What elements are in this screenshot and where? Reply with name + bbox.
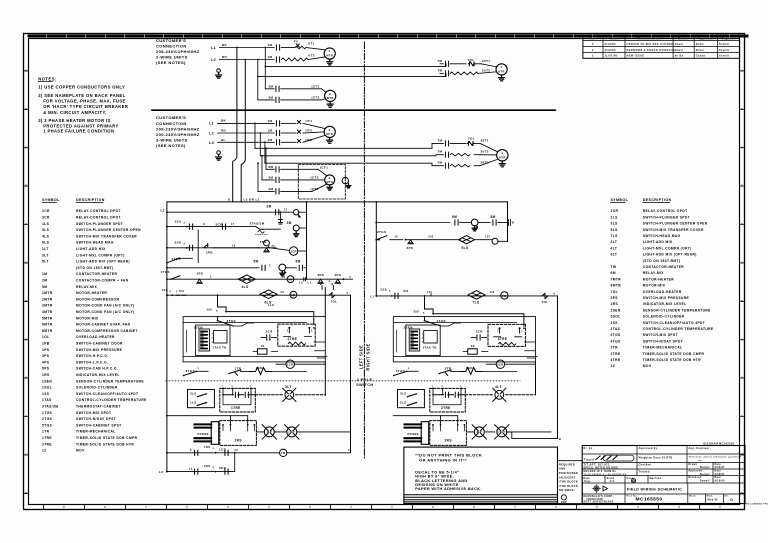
svg-text:TIMER-SOLID STATE DOB HTR: TIMER-SOLID STATE DOB HTR (643, 358, 701, 362)
svg-text:9: 9 (63, 506, 65, 509)
motor 1MTR circle (324, 48, 335, 59)
svg-text:PROBE: PROBE (408, 432, 419, 436)
svg-text:2 POLE: 2 POLE (357, 378, 373, 382)
wire L1 three phase (218, 122, 275, 124)
svg-text:1TAS: 1TAS (42, 398, 52, 402)
relay coil 2M aux circle (294, 210, 299, 215)
svg-text:1LT: 1LT (267, 431, 272, 434)
joining vertical (234, 453, 236, 472)
svg-text:RIGHT SIDE: RIGHT SIDE (365, 343, 370, 370)
right ladder upper right vertical (507, 202, 509, 242)
timer 4TRE box (488, 324, 525, 346)
drop wire into right box (425, 296, 524, 326)
svg-text:6: 6 (555, 506, 557, 509)
svg-text:a: a (216, 309, 218, 312)
svg-text:16: 16 (395, 236, 399, 239)
left ladder left bus (166, 202, 168, 472)
svg-text:PROBE: PROBE (198, 432, 209, 436)
svg-text:3TRE: 3TRE (288, 337, 298, 341)
svg-text:(CT1: (CT1 (312, 84, 320, 88)
revision table (583, 36, 740, 58)
ground below compressor (1ph) (327, 102, 333, 108)
svg-text:Drawn: Drawn (689, 464, 698, 466)
svg-text:6LT: 6LT (611, 253, 618, 257)
svg-text:4: 4 (268, 506, 270, 509)
center divider dash-dot line (363, 42, 365, 458)
svg-text:2M: 2M (269, 187, 274, 191)
svg-text:capacitor: capacitor (255, 233, 268, 236)
svg-text:4LS: 4LS (242, 285, 249, 289)
svg-text:MOV: MOV (643, 364, 652, 368)
svg-text:17: 17 (231, 223, 235, 226)
svg-text:L2: L2 (159, 470, 163, 474)
svg-text:SWITCH-CABINET DOOR: SWITCH-CABINET DOOR (76, 342, 123, 346)
svg-text:UPDATE TO MIX REF SYSTEM: UPDATE TO MIX REF SYSTEM (627, 42, 674, 46)
svg-text:HTR: HTR (499, 155, 505, 159)
heater element zigzag pole 2 (450, 72, 478, 75)
svg-text:TIMER-SOLID STATE DOB HTR: TIMER-SOLID STATE DOB HTR (76, 442, 134, 446)
svg-text:DIAGRAM MC165550: DIAGRAM MC165550 (704, 442, 735, 445)
svg-text:Engineer: Engineer (722, 37, 735, 40)
svg-text:MOTOR-MIX: MOTOR-MIX (643, 284, 666, 288)
ground below HTR (3ph) (499, 161, 505, 167)
svg-text:4: 4 (329, 280, 331, 283)
svg-text:3LS: 3LS (611, 222, 619, 226)
svg-text:7M: 7M (438, 150, 443, 154)
svg-text:x: x (408, 367, 410, 370)
svg-text:7: 7 (145, 506, 147, 509)
svg-text:2TAS TB: 2TAS TB (423, 346, 437, 350)
svg-text:H: H (741, 376, 743, 380)
svg-text:22: 22 (235, 449, 239, 452)
svg-text:MOLDED IN 3 TERM.BL: MOLDED IN 3 TERM.BL (584, 471, 617, 473)
svg-text:3: 3 (309, 506, 311, 509)
svg-text:TIMER-MECHANICAL: TIMER-MECHANICAL (643, 346, 683, 350)
svg-text:RD: RD (222, 55, 228, 59)
svg-text:SWITCH-PLUNGER SPDT: SWITCH-PLUNGER SPDT (76, 222, 123, 226)
feeder vertical from L1 (264, 47, 266, 49)
branch mix rail 1TGS (167, 278, 353, 280)
svg-text:1CR: 1CR (287, 363, 294, 367)
svg-text:7M: 7M (438, 68, 443, 72)
left ladder inner feed vertical (306, 202, 308, 279)
svg-text:3PS: 3PS (42, 354, 50, 358)
svg-text:OR 'HACR' TYPE CIRCUIT BREAKER: OR 'HACR' TYPE CIRCUIT BREAKER (43, 104, 128, 109)
svg-text:3SOL: 3SOL (611, 315, 621, 319)
svg-text:CUSTOMER'S: CUSTOMER'S (156, 38, 186, 43)
svg-text:RELAY-CONTROL DPDT: RELAY-CONTROL DPDT (76, 209, 121, 213)
svg-text:SENSOR-CYLINDER TEMPERATURE: SENSOR-CYLINDER TEMPERATURE (76, 379, 144, 383)
lamp 1LT (264, 427, 274, 437)
svg-text:1CR: 1CR (42, 209, 50, 213)
rail L2-or-L1 horizontal (167, 201, 508, 203)
svg-text:2: 2 (329, 176, 331, 180)
svg-text:1SOL: 1SOL (42, 386, 52, 390)
svg-text:1PB: 1PB (42, 342, 50, 346)
svg-text:MIX: MIX (404, 291, 409, 293)
svg-text:MOV: MOV (76, 449, 85, 453)
svg-text:BK: BK (222, 43, 228, 47)
svg-text:7A: 7A (189, 468, 193, 471)
svg-text:POSITIONED: POSITIONED (559, 472, 578, 475)
svg-text:208-230V/3PH/60HZ: 208-230V/3PH/60HZ (156, 126, 200, 131)
svg-text:2LT: 2LT (477, 431, 482, 434)
feeder to 2M contacts (257, 132, 259, 134)
relay 6M circle (287, 276, 294, 283)
svg-text:1=1: 1=1 (610, 480, 616, 483)
svg-text:MTR: MTR (326, 54, 333, 58)
svg-text:Cxdxx: Cxdxx (696, 54, 706, 58)
svg-text:SWITCH-CLEAN/OFF/AUTO 4PDT: SWITCH-CLEAN/OFF/AUTO 4PDT (643, 321, 705, 325)
svg-text:18: 18 (232, 244, 236, 247)
right ladder main rail (376, 295, 557, 297)
vertical feeder wire A (233, 48, 237, 202)
svg-text:D: D (730, 498, 733, 502)
svg-text:SWITCH-MIX SPST: SWITCH-MIX SPST (643, 333, 678, 337)
svg-text:1M: 1M (268, 43, 273, 47)
svg-text:PAPER WITH ADHESIVE BACK.: PAPER WITH ADHESIVE BACK. (415, 487, 481, 491)
svg-text:9: 9 (432, 506, 434, 509)
svg-text:7: 7 (514, 506, 516, 509)
svg-text:SWITCH-MIX PRESSURE: SWITCH-MIX PRESSURE (76, 348, 123, 352)
svg-text:4PS: 4PS (335, 273, 342, 277)
svg-text:C: C (741, 261, 743, 265)
svg-text:3CR: 3CR (42, 216, 50, 220)
feeder vertical from L2 (257, 59, 259, 61)
svg-text:6MTR: 6MTR (42, 323, 53, 327)
svg-text:Date: Date (715, 470, 722, 473)
svg-text:9/19/95: 9/19/95 (605, 42, 616, 46)
svg-text:MOTOR-COMPRESSOR: MOTOR-COMPRESSOR (76, 297, 119, 301)
small circle junction (492, 238, 498, 244)
right ruler ticks (740, 71, 745, 493)
svg-text:CONNECTION: CONNECTION (156, 43, 187, 48)
diamond 7LS (468, 291, 485, 300)
svg-text:(SEE NOTES): (SEE NOTES) (156, 143, 186, 148)
ground below CT motor (327, 185, 332, 190)
svg-text:SWITCH-CLEAN/OFF/AUTO 4PDT: SWITCH-CLEAN/OFF/AUTO 4PDT (76, 392, 138, 396)
svg-text:FIELD WIRING SCHEMATIC: FIELD WIRING SCHEMATIC (627, 487, 682, 491)
contactor coil 7M circle (501, 292, 508, 299)
compressor motor circle (1ph) (325, 90, 336, 101)
wire L2 single phase (220, 59, 275, 61)
svg-text:3LS: 3LS (400, 391, 406, 395)
svg-text:20T1: 20T1 (482, 59, 490, 63)
svg-text:DESCRIPTION: DESCRIPTION (76, 198, 105, 202)
svg-text:5M: 5M (296, 259, 301, 263)
feed wire to 2RS board (393, 415, 457, 417)
left ladder inner vertical V1 (324, 288, 326, 317)
svg-text:4TRE: 4TRE (498, 337, 508, 341)
heater bus 3ph line 1 (255, 143, 443, 148)
svg-text:2M: 2M (269, 95, 274, 99)
svg-text:Date: Date (584, 477, 591, 480)
svg-text:TIMER-MECHANICAL: TIMER-MECHANICAL (76, 430, 116, 434)
svg-text:MOTOR-COND FAN (A/C ONLY): MOTOR-COND FAN (A/C ONLY) (76, 304, 135, 308)
svg-text:MOTOR-MIX: MOTOR-MIX (76, 316, 99, 320)
svg-text:2CR: 2CR (497, 363, 504, 367)
svg-text:MOTOR-COND FAN (A/C ONLY): MOTOR-COND FAN (A/C ONLY) (76, 310, 135, 314)
svg-text:2: 2 (329, 128, 331, 132)
branch 2M coil row (167, 211, 293, 213)
svg-text:Sewell: Sewell (700, 479, 710, 482)
title block grid (582, 453, 745, 455)
svg-text:RELAY-CONTROL DPDT: RELAY-CONTROL DPDT (76, 216, 121, 220)
section separator line (152, 109, 555, 111)
svg-text:LIGHT-ADD MIX (OPT REAR): LIGHT-ADD MIX (OPT REAR) (76, 260, 130, 264)
svg-text:UT2: UT2 (306, 129, 313, 133)
svg-text:L1: L1 (370, 294, 374, 298)
svg-text:1MTR: 1MTR (42, 291, 53, 295)
svg-text:124: 124 (485, 236, 490, 239)
svg-text:G: G (741, 107, 743, 111)
svg-text:5: 5 (596, 506, 598, 509)
svg-text:x: x (389, 290, 391, 293)
ground below 2M circle (294, 231, 299, 236)
svg-text:2SS: 2SS (175, 240, 182, 244)
svg-text:LIGHT-ADD MIX: LIGHT-ADD MIX (643, 240, 673, 244)
svg-text:SWITCH-H.P.C.O.: SWITCH-H.P.C.O. (76, 354, 109, 358)
left ladder right bus (350, 295, 352, 453)
svg-text:5MTR: 5MTR (42, 316, 53, 320)
svg-text:6: 6 (554, 292, 556, 295)
relay coil 3CR (289, 247, 297, 255)
svg-text:2TAS: 2TAS (611, 327, 621, 331)
ground below 6M circle (472, 226, 477, 231)
svg-text:& MIN. CIRCUIT AMPACITY.: & MIN. CIRCUIT AMPACITY. (43, 110, 107, 115)
svg-text:x: x (213, 466, 215, 469)
svg-text:4LT: 4LT (611, 246, 618, 250)
svg-text:2CR: 2CR (219, 466, 227, 470)
svg-text:6: 6 (186, 506, 188, 509)
svg-text:INDICATOR-MIX LEVEL: INDICATOR-MIX LEVEL (643, 302, 687, 306)
svg-text:Weighton Dyno 10 RTB: Weighton Dyno 10 RTB (639, 456, 673, 459)
svg-text:x: x (170, 290, 172, 293)
svg-text:LIGHT-MXL COMPR (OPT): LIGHT-MXL COMPR (OPT) (643, 246, 692, 250)
level board 1RS dashed box (220, 421, 257, 446)
svg-text:/THE BLOCK: /THE BLOCK (559, 481, 578, 484)
svg-text:SWITCH-L.P.C.O.: SWITCH-L.P.C.O. (76, 360, 108, 364)
svg-text:LIGHT-ADD MIX: LIGHT-ADD MIX (76, 247, 106, 251)
2M feed verticals (3ph) (265, 147, 267, 149)
svg-text:SWITCH-PLUNGER CENTER OPEN: SWITCH-PLUNGER CENTER OPEN (76, 228, 141, 232)
breaker marks 3ph (281, 122, 296, 124)
svg-text:7M: 7M (438, 161, 443, 165)
svg-text:2SEN: 2SEN (611, 308, 621, 312)
svg-text:2RS: 2RS (445, 439, 452, 443)
svg-text:B: B (512, 221, 514, 225)
svg-text:1OL: 1OL (42, 335, 50, 339)
svg-text:6M: 6M (452, 215, 457, 219)
svg-text:CONTACTOR-COMPR + FAN: CONTACTOR-COMPR + FAN (76, 279, 129, 283)
svg-text:L1: L1 (209, 122, 214, 126)
svg-text:11/07/90: 11/07/90 (605, 54, 618, 58)
level board 2RS dashed box (430, 421, 467, 446)
svg-text:Approved: Approved (699, 37, 713, 40)
border frame inner (29, 39, 740, 505)
svg-text:1TGS: 1TGS (161, 270, 170, 274)
svg-text:MTR: MTR (326, 132, 333, 136)
stamp circle (561, 495, 566, 500)
timer 1TRE dashed box lower (220, 388, 256, 412)
svg-text:Mod 80: Mod 80 (708, 499, 719, 502)
svg-text:SWITCH-MIX PRESSURE: SWITCH-MIX PRESSURE (643, 296, 690, 300)
svg-text:Approved by: Approved by (639, 447, 658, 450)
svg-text:1M: 1M (268, 55, 273, 59)
CT dashed enclosure (298, 165, 345, 200)
svg-text:Checked: Checked (639, 463, 652, 466)
svg-text:OVERLOAD-HEATER: OVERLOAD-HEATER (76, 335, 115, 339)
svg-text:3LT: 3LT (285, 385, 292, 389)
svg-text:8MTR: 8MTR (611, 284, 622, 288)
svg-text:AND: AND (559, 468, 566, 471)
heater bus 3ph line 2 (260, 155, 443, 156)
svg-text:2TR: 2TR (611, 346, 619, 350)
svg-text:Traced: Traced (584, 458, 594, 461)
svg-text:1LS: 1LS (42, 222, 50, 226)
svg-text:2: 2 (719, 506, 721, 509)
svg-text:20T2: 20T2 (481, 150, 489, 154)
probe assembly (211, 422, 219, 445)
svg-text:4LT: 4LT (495, 385, 502, 389)
svg-text:Mach.: Mach. (689, 495, 697, 497)
svg-text:155: 155 (207, 308, 213, 312)
svg-text:CONNECTION: CONNECTION (156, 121, 187, 126)
svg-text:Date: Date (715, 463, 722, 466)
wire L3 three phase (218, 141, 275, 143)
svg-text:(CT1: (CT1 (320, 166, 328, 170)
svg-text:TW: TW (611, 265, 617, 269)
svg-text:OVERLOAD-HEATER: OVERLOAD-HEATER (643, 290, 682, 294)
diamond 4LS (238, 275, 255, 284)
feed wire to 1RS board (167, 415, 248, 417)
vertical feeder wire B (241, 60, 245, 202)
projection symbol (592, 484, 607, 493)
svg-text:1 PHASE FAILURE CONDITION: 1 PHASE FAILURE CONDITION (43, 129, 114, 134)
svg-text:L1: L1 (211, 46, 216, 50)
svg-text:SPECS. NOTED ON DWG.: SPECS. NOTED ON DWG. (584, 467, 620, 469)
ground below 1MTR (327, 59, 333, 65)
svg-text:L2 OR L1: L2 OR L1 (244, 198, 260, 202)
svg-text:21: 21 (284, 209, 288, 212)
svg-text:2M: 2M (269, 84, 274, 88)
wire L1 single phase (220, 47, 275, 49)
svg-text:Date: Date (611, 37, 618, 40)
svg-text:1LO: 1LO (268, 303, 274, 307)
svg-text:CONTACTOR-HEATER: CONTACTOR-HEATER (76, 272, 117, 276)
drop wire into box (218, 295, 314, 324)
svg-text:2TGS: 2TGS (611, 333, 622, 337)
svg-text:5TGS: 5TGS (42, 423, 53, 427)
lamp 1LT optional (287, 427, 297, 437)
svg-text:L3: L3 (209, 141, 214, 145)
svg-text:2LS: 2LS (400, 401, 406, 405)
limit switch 3LS box (188, 390, 215, 408)
svg-text:5M: 5M (254, 259, 259, 263)
svg-text:1TGS: 1TGS (42, 411, 53, 415)
svg-text:1M: 1M (268, 129, 273, 133)
svg-text:SWITCH-HEAD MAG: SWITCH-HEAD MAG (643, 234, 681, 238)
svg-text:2M: 2M (269, 175, 274, 179)
svg-text:REDRAWN & CHECK ST/DECAL: REDRAWN & CHECK ST/DECAL (627, 48, 676, 52)
svg-text:1SS: 1SS (175, 219, 182, 223)
svg-text:ON DWGS.: ON DWGS. (559, 489, 575, 492)
svg-text:Drafter: Drafter (678, 37, 689, 40)
svg-text:6LS: 6LS (42, 241, 50, 245)
svg-text:7MTR: 7MTR (611, 277, 622, 281)
svg-text:2PS: 2PS (611, 296, 619, 300)
svg-text:LIGHT-MXL COMPR (OPT): LIGHT-MXL COMPR (OPT) (76, 253, 125, 257)
svg-text:SWITCH-PLUNGER CENTER OPEN: SWITCH-PLUNGER CENTER OPEN (643, 222, 708, 226)
svg-text:3LS: 3LS (190, 391, 196, 395)
wires inside box (183, 323, 327, 357)
svg-text:7M: 7M (502, 294, 507, 298)
svg-text:MOTOR-HEATER: MOTOR-HEATER (643, 277, 674, 281)
svg-text:3) 3 PHASE HEATER MOTOR IS: 3) 3 PHASE HEATER MOTOR IS (38, 118, 111, 123)
svg-text:SOLENOID-CYLINDER: SOLENOID-CYLINDER (643, 315, 685, 319)
wires inside right box (393, 323, 537, 357)
svg-text:MOTOR-CABINET EVAP. FAN: MOTOR-CABINET EVAP. FAN (76, 323, 131, 327)
svg-text:1TAS TB: 1TAS TB (213, 346, 227, 350)
svg-text:RD: RD (221, 129, 227, 133)
svg-text:3/02/93: 3/02/93 (605, 48, 616, 52)
svg-text:3PS: 3PS (318, 273, 325, 277)
svg-text:1M: 1M (42, 272, 47, 276)
svg-text:SYMBOL: SYMBOL (42, 198, 60, 202)
svg-text:REQUIRED: REQUIRED (559, 463, 575, 466)
svg-text:2Z: 2Z (471, 344, 475, 348)
svg-text:D: D (741, 222, 743, 226)
svg-text:RELAY-MIX: RELAY-MIX (76, 285, 97, 289)
svg-text:x: x (213, 447, 215, 450)
svg-text:1Z: 1Z (42, 449, 47, 453)
svg-text:2M: 2M (287, 221, 292, 225)
svg-text:1RS: 1RS (42, 373, 50, 377)
svg-text:3CR: 3CR (290, 249, 297, 253)
svg-text:2: 2 (592, 48, 594, 52)
svg-text:SWITCH-HEAD MAG: SWITCH-HEAD MAG (76, 241, 114, 245)
motor circle 2M lower (293, 225, 299, 231)
svg-text:Mod.: Mod. (707, 495, 714, 497)
svg-text:B: B (741, 299, 743, 303)
svg-text:MOTOR-COMPRESSOR CABINET: MOTOR-COMPRESSOR CABINET (76, 329, 138, 333)
diamond 5LS (459, 236, 475, 244)
right ladder right bus (557, 296, 559, 439)
svg-text:1M: 1M (268, 119, 273, 123)
svg-text:2TRE: 2TRE (441, 406, 451, 410)
svg-text:3MTR: 3MTR (42, 304, 53, 308)
ground below 5M circle (280, 271, 285, 276)
svg-text:3TRE: 3TRE (42, 442, 52, 446)
svg-text:2M: 2M (267, 205, 272, 209)
svg-text:7OL: 7OL (542, 300, 549, 304)
branch 1M coil row bottom (167, 452, 280, 454)
svg-text:1M: 1M (281, 451, 286, 455)
svg-text:23: 23 (282, 276, 286, 279)
branch 5M motor row (197, 230, 199, 263)
ground below HTR (1ph) (499, 75, 505, 81)
svg-text:(SEE NOTES): (SEE NOTES) (156, 60, 186, 65)
svg-text:9/19/95: 9/19/95 (715, 480, 726, 482)
svg-text:2CR: 2CR (611, 209, 619, 213)
svg-text:x: x (198, 367, 200, 370)
svg-text:6M: 6M (288, 278, 292, 282)
svg-text:Dr. by: Dr. by (584, 447, 593, 450)
svg-text:SWITCH-MIX TRANSFER COVER: SWITCH-MIX TRANSFER COVER (76, 234, 137, 238)
svg-text:MC165550: MC165550 (636, 497, 663, 503)
left ladder big box outline (183, 317, 325, 362)
svg-text:1LS: 1LS (190, 401, 196, 405)
